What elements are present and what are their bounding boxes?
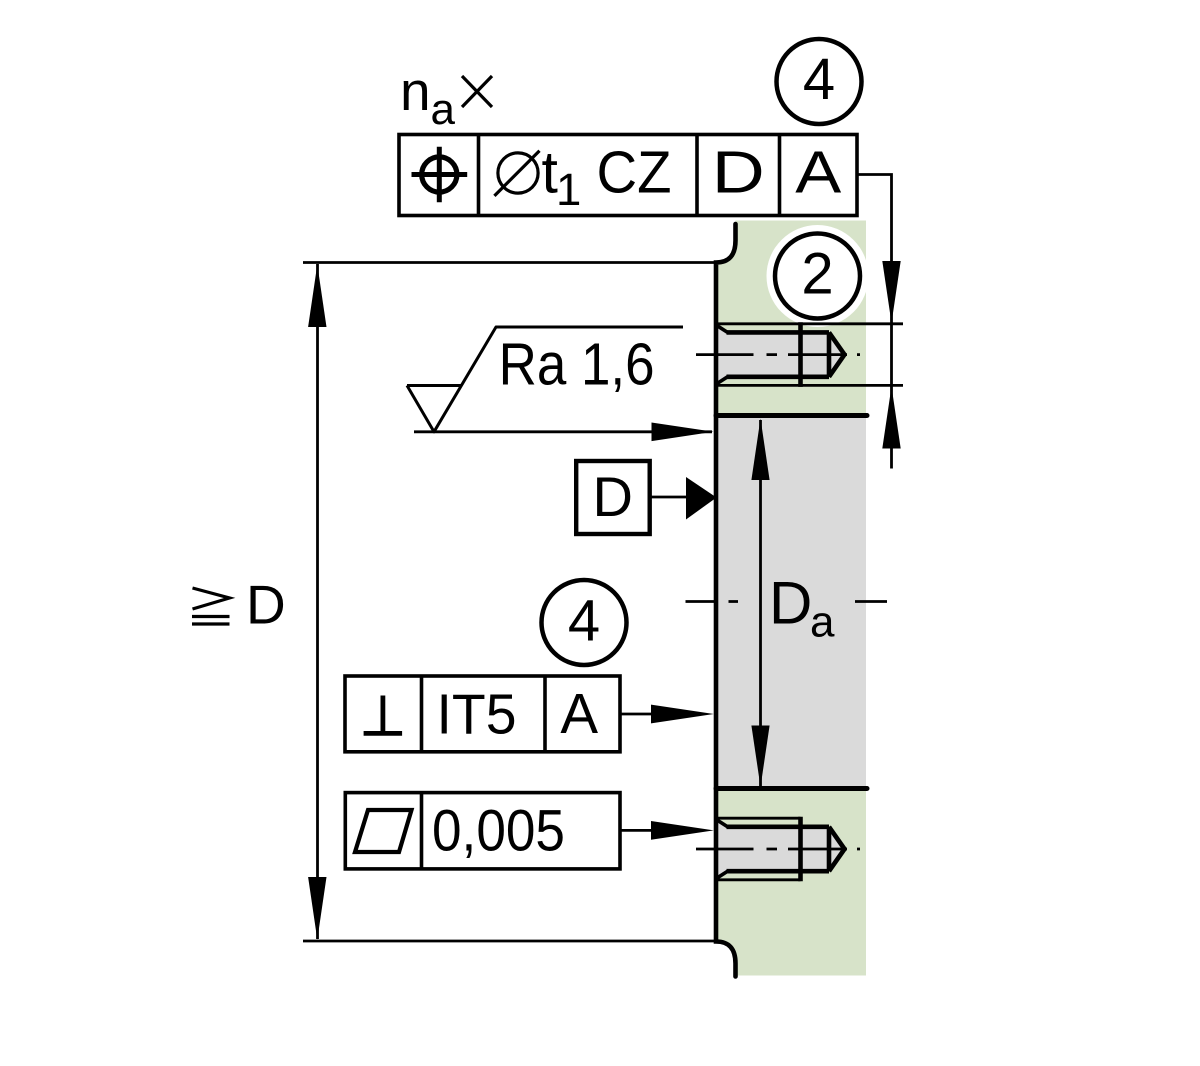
balloon 4 top <box>777 39 862 124</box>
shoulder edge bottom <box>716 786 867 791</box>
svg-text:n: n <box>400 60 431 122</box>
perpendicularity symbol <box>380 696 385 734</box>
tapped hole bottom : entry chamfer lower <box>715 871 729 880</box>
tapped hole bottom : entry chamfer upper <box>715 819 729 828</box>
FCF perpendicularity leader <box>620 713 660 716</box>
tapped hole top : drill cone base <box>827 332 832 376</box>
svg-text:IT5: IT5 <box>437 682 517 746</box>
tapped hole bottom : thread root lower <box>727 869 830 874</box>
tapped hole bottom : drill cone <box>829 827 845 871</box>
surface finish symbol closing bar <box>407 384 461 387</box>
datum D box <box>576 461 650 534</box>
svg-text:a: a <box>431 85 456 134</box>
FCF position frame <box>399 135 857 216</box>
balloon 2 <box>775 234 860 319</box>
dimension line greater-equal D <box>316 264 319 939</box>
tapped hole top : entry chamfer lower <box>715 376 729 385</box>
svg-text:D: D <box>712 140 765 206</box>
Da dimension line <box>759 420 762 786</box>
tapped hole bottom : drill cone base <box>827 827 832 871</box>
balloon 2 white halo <box>767 225 869 327</box>
svg-text:0,005: 0,005 <box>432 799 565 864</box>
tapped hole top : bore fill <box>716 325 844 384</box>
tapped hole bottom : bore fill <box>716 819 844 878</box>
extension line top <box>303 261 718 264</box>
tapped hole top : thread end line <box>798 322 803 387</box>
shoulder edge top <box>716 413 867 418</box>
position symbol <box>422 157 457 192</box>
FCF perpendicularity frame <box>345 676 620 752</box>
bore centerline <box>686 600 888 603</box>
housing section green band <box>716 221 866 976</box>
bearing seat gray band <box>716 416 866 789</box>
flatness symbol <box>355 810 412 852</box>
part outline <box>716 224 736 977</box>
tapped hole bottom : centerline <box>696 848 860 851</box>
Da arrow down <box>751 726 769 788</box>
dimension arrow up <box>308 265 326 328</box>
FCF flatness frame <box>345 793 620 869</box>
svg-text:D: D <box>246 574 286 636</box>
svg-text:Ra 1,6: Ra 1,6 <box>499 332 655 398</box>
datum triangle <box>686 477 717 520</box>
tapped hole bottom : thread end line <box>798 817 803 882</box>
tapped hole bottom : thread crest lower <box>716 878 801 881</box>
leader from A to dimension <box>857 175 892 469</box>
right dimension arrow down <box>882 261 900 323</box>
tapped hole top : drill cone <box>829 332 845 376</box>
dimension arrow down <box>308 877 326 940</box>
Da arrow up <box>751 419 769 481</box>
tapped hole top : centerline <box>696 353 860 356</box>
tapped hole top : thread crest / extension line lower <box>716 384 903 387</box>
tapped hole top : thread crest / extension line upper <box>716 322 903 325</box>
surface finish arrow <box>652 423 714 442</box>
svg-text:A: A <box>560 682 598 745</box>
svg-text:1: 1 <box>556 164 581 215</box>
svg-text:CZ: CZ <box>597 140 672 206</box>
datum leader <box>649 496 688 499</box>
right dimension arrow up <box>882 387 900 449</box>
svg-text:a: a <box>810 598 835 647</box>
surface finish symbol <box>407 327 683 432</box>
svg-text:4: 4 <box>803 47 835 112</box>
surface finish leader line <box>414 430 712 433</box>
diameter symbol <box>498 153 538 193</box>
tapped hole top : entry chamfer upper <box>715 324 729 333</box>
balloon 4 middle <box>542 580 627 665</box>
svg-text:4: 4 <box>568 589 600 654</box>
svg-text:2: 2 <box>801 242 833 307</box>
tapped hole bottom : thread root upper <box>727 824 830 829</box>
extension line bottom <box>303 940 714 943</box>
tapped hole top : thread root upper <box>727 330 830 335</box>
tapped hole top : thread root lower <box>727 374 830 379</box>
tapped hole bottom : thread crest upper <box>716 817 801 820</box>
svg-text:A: A <box>795 140 842 206</box>
svg-text:D: D <box>769 569 812 636</box>
FCF flatness leader <box>620 829 660 832</box>
label greater-equal symbol <box>193 588 230 609</box>
svg-text:D: D <box>592 465 632 528</box>
